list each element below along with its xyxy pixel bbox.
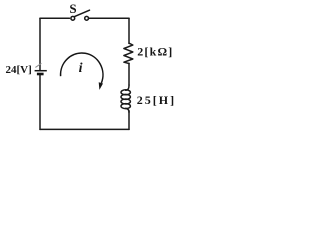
wire left side xyxy=(39,18,41,70)
current arrowhead xyxy=(99,82,103,90)
switch S blade xyxy=(75,10,90,16)
wire bottom xyxy=(40,128,129,130)
battery E 24V long plate xyxy=(35,70,47,72)
resistor R 2kOhm zigzag xyxy=(124,43,133,63)
svg-text:i: i xyxy=(79,61,83,76)
battery E 24V short plate xyxy=(37,73,44,76)
wire top-left xyxy=(40,17,70,19)
wire right upper xyxy=(128,18,130,43)
inductor L 25H coil xyxy=(126,85,129,90)
svg-text:2[kΩ]: 2[kΩ] xyxy=(137,44,173,58)
switch contact right xyxy=(85,16,89,20)
svg-text:S: S xyxy=(69,1,76,16)
current loop arrow arc xyxy=(61,53,103,83)
svg-text:24[V]: 24[V] xyxy=(6,64,32,76)
battery polarity tick xyxy=(35,63,41,67)
wire right lower xyxy=(128,111,130,130)
svg-text:25[H]: 25[H] xyxy=(137,93,174,107)
wire top-right xyxy=(89,17,129,19)
wire left lower xyxy=(39,75,41,129)
switch contact left xyxy=(71,16,75,20)
wire right middle xyxy=(128,63,130,85)
